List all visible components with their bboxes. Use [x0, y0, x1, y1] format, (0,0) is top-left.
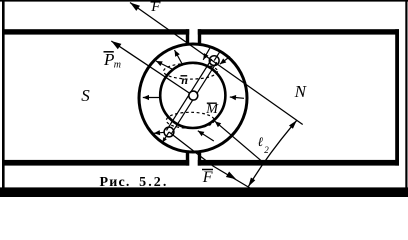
svg-text:m: m [114, 59, 121, 70]
svg-text:5.2.: 5.2. [139, 175, 168, 190]
svg-text:Рис.: Рис. [100, 175, 131, 190]
svg-text:2: 2 [264, 145, 269, 155]
svg-text:M: M [205, 102, 219, 117]
svg-text:P: P [103, 50, 114, 69]
svg-text:S: S [81, 86, 90, 105]
svg-text:ℓ: ℓ [258, 134, 264, 149]
svg-text:N: N [294, 82, 308, 101]
svg-text:F: F [202, 169, 213, 186]
